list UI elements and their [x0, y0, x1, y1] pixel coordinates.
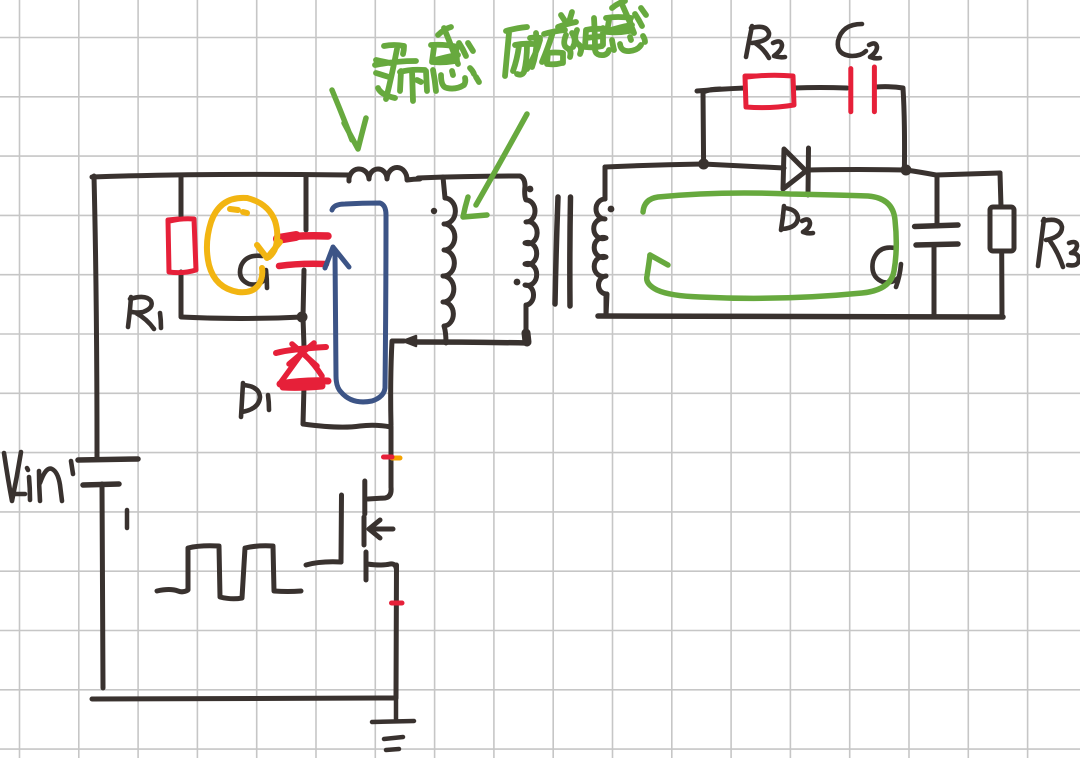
battery Vin bottom plate — [83, 484, 119, 485]
wire: primary top rail — [92, 174, 349, 177]
wire: RC snubber left vertical — [703, 89, 720, 164]
wire: down to R3 — [1000, 173, 1001, 207]
blue arrowhead — [325, 247, 349, 268]
wire: D1 anode down to snubber bottom — [303, 386, 304, 424]
wire: gate lead — [306, 562, 341, 565]
text magnetizing 磁 — [542, 12, 581, 64]
orange tick on drain wire — [392, 456, 400, 461]
diode D2 cathode bar — [806, 148, 812, 195]
battery Vin top plate — [78, 459, 138, 460]
label D1 — [241, 383, 269, 417]
wire: source down rail — [394, 565, 400, 698]
arrowhead on primary bottom wire — [403, 336, 416, 346]
diode D2 triangle — [783, 149, 806, 189]
wire: primary bottom from winding to drain node — [415, 342, 528, 343]
wire: drain down to MOSFET — [389, 427, 394, 487]
label Vin — [4, 452, 73, 501]
wire: drain lead into channel — [368, 487, 391, 499]
yellow loop left half — [207, 198, 262, 292]
transistor Q1 source lead — [367, 564, 397, 570]
wire: branch down to magnetizing inductor — [443, 177, 445, 198]
inductor Lm magnetizing — [443, 198, 455, 343]
transformer secondary winding — [594, 199, 607, 316]
wire: cap C bottom lead — [932, 247, 937, 315]
wire: top rail to R1 branch — [179, 176, 184, 219]
green loop secondary current — [643, 193, 896, 298]
diode D1 triangle sides — [281, 353, 322, 382]
wire: secondary bottom rail — [598, 316, 1003, 317]
wire: snubber bottom horizontal D1-to-drain — [303, 424, 391, 427]
text magnetizing 励 — [505, 27, 540, 76]
wire: snubber R2-C2 segment — [794, 85, 847, 91]
text leakage 感 — [431, 27, 479, 91]
node dot left of primary winding — [514, 279, 521, 286]
diode D1 cathode bar — [276, 347, 326, 353]
node dot primary coil top — [527, 186, 534, 193]
yellow arrowhead — [257, 242, 280, 258]
wire: left rail down to Vin — [94, 176, 97, 458]
inductor leakage Llk — [349, 167, 420, 181]
label R2 — [746, 26, 785, 58]
diode D1 anode bar overdraw — [283, 386, 322, 387]
battery tick mark — [125, 510, 130, 528]
YELLOWINK — [325, 203, 386, 402]
red tick on source wire — [392, 601, 403, 606]
wire: secondary top lead — [603, 167, 608, 199]
wire: branch down to cap C — [935, 175, 940, 226]
wire: R3 bottom lead — [999, 251, 1004, 317]
wire: junction down to D1 cathode — [303, 317, 304, 347]
capacitor C1 top plate — [277, 236, 328, 238]
wire: snubber bottom rail R1-C1 — [181, 317, 302, 319]
wire: snubber top left segment — [697, 88, 745, 91]
green arrow to leakage inductor — [332, 90, 366, 149]
node dot secondary winding top — [608, 206, 615, 213]
label R3 — [1038, 219, 1079, 267]
wire: drain node vertical up to primary bottom — [391, 341, 404, 425]
wire: secondary bottom lead — [604, 294, 609, 316]
blue loop — [332, 203, 386, 402]
node junction dot snubber right tap — [901, 165, 912, 176]
ground symbol — [372, 698, 414, 750]
junction blob primary winding bottom — [526, 333, 527, 342]
wire: battery minus down — [102, 484, 103, 688]
wire: R1 bottom to snubber rail — [179, 272, 184, 316]
transistor Q1 channel bars — [364, 481, 366, 580]
diode D1 anode bar — [280, 381, 328, 384]
wire: bottom ground rail — [92, 698, 395, 699]
label C2 — [838, 24, 880, 58]
diode D1 cross strokes — [289, 343, 317, 366]
resistor R1 body — [168, 219, 196, 273]
label R1 — [128, 297, 161, 329]
capacitor C1 top plate blob — [278, 236, 296, 239]
wire: snubber right segment and vertical — [876, 87, 905, 170]
label D2 — [781, 206, 813, 233]
wire: secondary top rail right of D2 — [808, 167, 905, 173]
transformer primary winding — [525, 186, 537, 338]
node junction dot snubber — [297, 312, 308, 323]
green arrow to magnetizing inductor — [463, 114, 527, 217]
capacitor C plates — [915, 225, 958, 245]
wire: secondary top rail — [605, 164, 784, 168]
wire: top rail down to C1 — [304, 175, 309, 230]
resistor R2 body — [745, 75, 794, 107]
wire: output rail right of junction — [906, 170, 1000, 175]
red tick on drain wire — [384, 455, 393, 460]
transformer core bars — [555, 197, 571, 306]
capacitor C1 bottom plate — [279, 264, 326, 266]
capacitor C2 left plate — [848, 69, 853, 112]
text magnetizing 感 — [606, 1, 646, 51]
yellow pen skip dashes — [230, 209, 247, 213]
resistor R3 body — [990, 207, 1014, 251]
square wave gate signal — [157, 546, 301, 599]
label C1 — [240, 256, 267, 288]
yellow loop right half with arrow — [247, 198, 277, 257]
text magnetizing 电 — [585, 18, 609, 55]
wire: top rail from Llk to primary corner — [418, 176, 525, 186]
node junction dot snubber left tap — [698, 159, 709, 170]
node dot left of Lm — [431, 208, 437, 214]
capacitor C2 right plate — [872, 67, 877, 112]
green loop arrowhead — [650, 255, 668, 265]
text leakage 漏 — [375, 45, 427, 101]
wire: C1 bottom to junction — [303, 270, 304, 317]
transistor Q1 body arrow — [369, 520, 393, 538]
transistor Q1 gate bar — [339, 495, 345, 562]
label C output — [872, 248, 901, 287]
